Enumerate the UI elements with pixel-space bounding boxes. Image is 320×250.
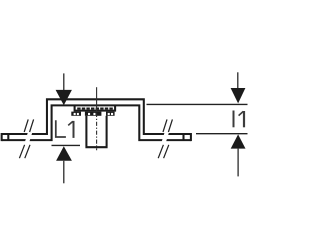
fastener foot B (85, 112, 102, 116)
wire right rail end cap (190, 133, 192, 141)
wire left rail end cap (1, 133, 3, 141)
dimension l1 top reference line (147, 103, 248, 105)
wire rail inner surface: left rail bottom wall, inner bridge line, right rail bottom wall (2, 105, 191, 140)
wire rail outer surface: left rail top wall, up over bridge, right rail top wall (2, 99, 191, 134)
label l1 digit 1 flag (239, 111, 244, 115)
dimension l1 bottom arrow (231, 134, 246, 176)
fastener foot A (71, 112, 81, 116)
label L1 drawn as paths: letter L (56, 120, 74, 138)
dimension L1 bottom arrow (56, 146, 72, 183)
fastener flange outline (74, 105, 117, 111)
wire right rail divider (182, 134, 184, 140)
label l1 drawn as paths: letter l (234, 111, 245, 128)
label l1 digit 1 stem (243, 111, 245, 127)
wire left rail divider (7, 134, 9, 140)
break mark left lower slashes (19, 145, 30, 158)
centerline (96, 87, 98, 150)
dimension l1 top arrow (231, 72, 246, 103)
break mark left white gap (25, 132, 32, 141)
break mark right white gap (162, 132, 169, 141)
label L1 digit 1 flag (68, 121, 73, 125)
fastener foot C (106, 112, 115, 116)
break mark right upper slashes (163, 119, 172, 132)
dimension L1 top arrow (56, 73, 72, 105)
break mark right lower slashes (158, 145, 169, 158)
dimension l1 bottom reference line (196, 133, 248, 135)
fastener knurl dashes (77, 108, 113, 110)
break mark left upper slashes (24, 119, 33, 132)
label L1 digit 1 stem (73, 121, 75, 138)
dimension L1 bottom reference line (52, 144, 81, 146)
fastener leg (85, 116, 107, 147)
